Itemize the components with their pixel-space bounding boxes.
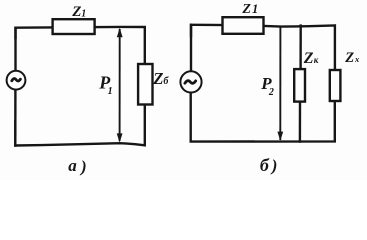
svg-text:б: б — [163, 76, 169, 87]
svg-text:1: 1 — [81, 8, 86, 19]
svg-text:б: б — [260, 155, 270, 175]
svg-text:Z: Z — [303, 50, 314, 67]
svg-text:): ) — [270, 156, 278, 175]
svg-text:1: 1 — [252, 2, 258, 16]
svg-text:Z: Z — [344, 50, 354, 66]
svg-text:Z: Z — [152, 69, 163, 88]
svg-text:1: 1 — [108, 86, 113, 97]
svg-text:к: к — [314, 55, 319, 65]
svg-text:Z: Z — [241, 2, 251, 17]
svg-text:Z: Z — [71, 4, 81, 20]
svg-text:2: 2 — [268, 87, 274, 98]
svg-text:х: х — [354, 54, 360, 64]
svg-text:а: а — [68, 156, 77, 175]
svg-text:): ) — [79, 157, 87, 176]
